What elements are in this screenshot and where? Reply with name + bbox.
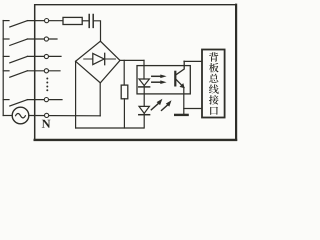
backplane text 背板总线接口 [209,52,219,115]
left supply bus [2,21,4,116]
wire emitter down [183,88,185,114]
switch S1 [3,21,63,27]
ground [175,114,187,116]
resistor R2 [121,85,128,99]
capacitor C1 [89,15,93,28]
terminal node row1 [45,19,49,23]
terminal node row3 [44,54,48,58]
switch S5 [3,100,62,106]
wire junction to R2 [123,60,125,85]
backplane bus interface box [202,50,225,118]
terminal node N [45,113,49,117]
label N [42,120,51,128]
switch S2 [3,39,57,45]
wire bridge minus down [75,61,77,128]
wire R2 to return [123,99,125,128]
wire bridge bottom to N row [99,83,101,116]
wire bridge plus to opto [120,59,144,61]
wire C1 to bridge top [93,21,100,42]
AC source G1 [3,115,12,117]
wire R1 to C1 [82,20,89,22]
light arrows [152,75,167,85]
optocoupler box U1 [137,66,190,94]
ellipsis dots [46,78,48,92]
switch S3 [3,56,61,62]
terminal node row4 [44,69,48,73]
bridge diode [84,58,116,60]
module outer box [35,4,236,6]
wire N row [29,115,100,117]
wire collector to backplane [184,60,202,62]
wire return bottom [76,127,144,129]
LED emission arrows [151,99,171,111]
bridge rectifier B1 [76,41,120,83]
phototransistor Q1 [174,72,176,86]
wire emitter to backplane [184,108,202,110]
switch S4 [3,71,60,77]
opto LED D1 [139,79,149,86]
resistor R1 [63,17,82,24]
terminal node row2 [44,37,48,41]
terminal node row5 [44,98,48,102]
indicator LED D2 [139,106,149,113]
